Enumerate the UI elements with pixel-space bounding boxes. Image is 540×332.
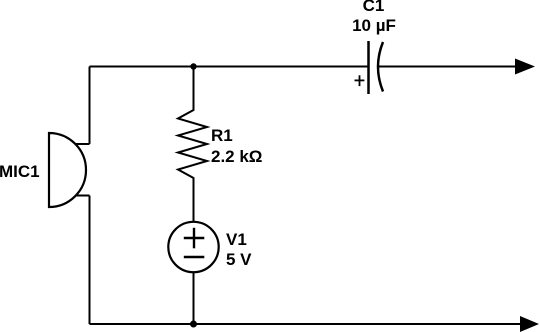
svg-text:10 µF: 10 µF	[352, 16, 396, 35]
svg-text:R1: R1	[211, 126, 233, 145]
svg-text:5 V: 5 V	[226, 250, 252, 269]
svg-text:C1: C1	[363, 0, 385, 15]
svg-text:2.2 kΩ: 2.2 kΩ	[211, 147, 262, 166]
svg-text:V1: V1	[226, 230, 247, 249]
svg-text:MIC1: MIC1	[0, 162, 40, 181]
